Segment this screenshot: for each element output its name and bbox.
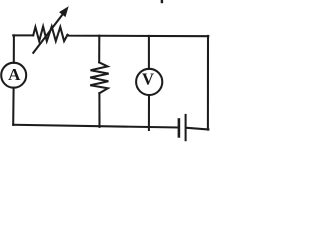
wire: left vertical lower (ammeter to bottom corner) — [12, 88, 14, 125]
wire: bottom horizontal left run — [13, 125, 178, 128]
wire: voltmeter branch bottom — [148, 95, 150, 130]
battery cell long plate — [185, 115, 187, 140]
rheostat R1 arrowhead — [60, 7, 68, 16]
ammeter A circle — [1, 63, 26, 88]
wire: top horizontal run to right — [68, 35, 209, 36]
svg-text:A: A — [8, 65, 21, 84]
node: middle branch top junction — [98, 36, 100, 63]
wire: bottom horizontal right (battery to right wire) — [187, 128, 209, 130]
wire: left vertical upper (corner to ammeter) — [13, 35, 15, 62]
wire: voltmeter branch top — [148, 36, 150, 69]
resistor R vertical zigzag — [90, 62, 109, 93]
stray scan mark top — [161, 0, 163, 3]
voltmeter V circle — [136, 69, 162, 95]
wire: right vertical — [207, 36, 209, 130]
rheostat R1 zigzag — [33, 27, 67, 42]
battery cell short plate — [178, 120, 181, 137]
rheostat R1 arrow shaft — [33, 13, 63, 53]
svg-text:V: V — [142, 69, 154, 88]
wire: top-left horizontal segment — [13, 34, 33, 36]
wire: middle branch bottom — [98, 93, 100, 127]
